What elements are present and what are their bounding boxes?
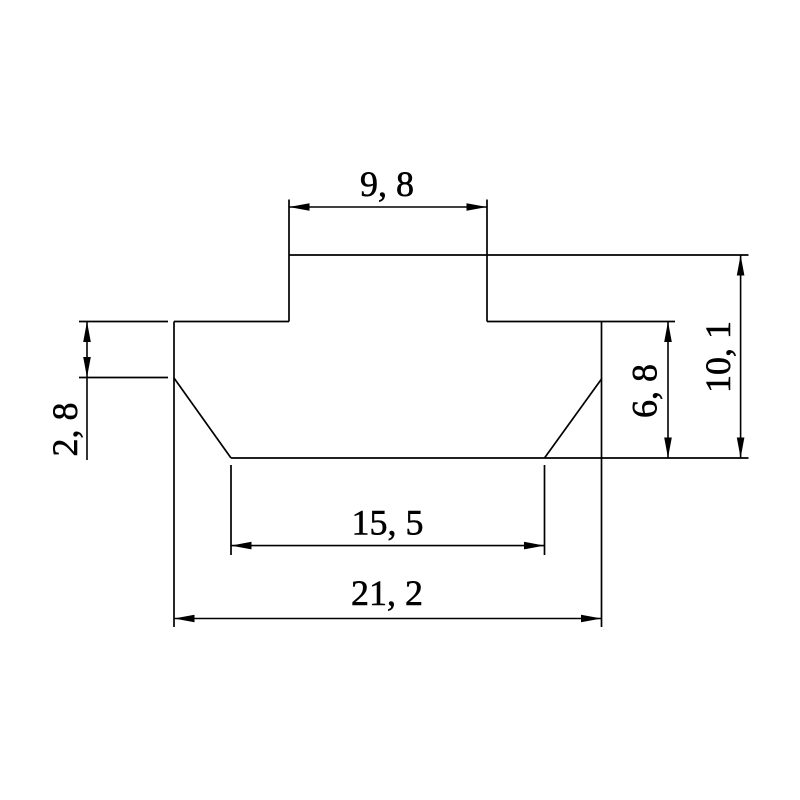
svg-text:9, 8: 9, 8 bbox=[360, 164, 414, 204]
svg-text:2, 8: 2, 8 bbox=[45, 403, 85, 457]
svg-text:15, 5: 15, 5 bbox=[352, 503, 424, 543]
svg-text:21, 2: 21, 2 bbox=[351, 573, 423, 613]
svg-text:6, 8: 6, 8 bbox=[625, 364, 665, 418]
svg-text:10, 1: 10, 1 bbox=[698, 321, 738, 393]
